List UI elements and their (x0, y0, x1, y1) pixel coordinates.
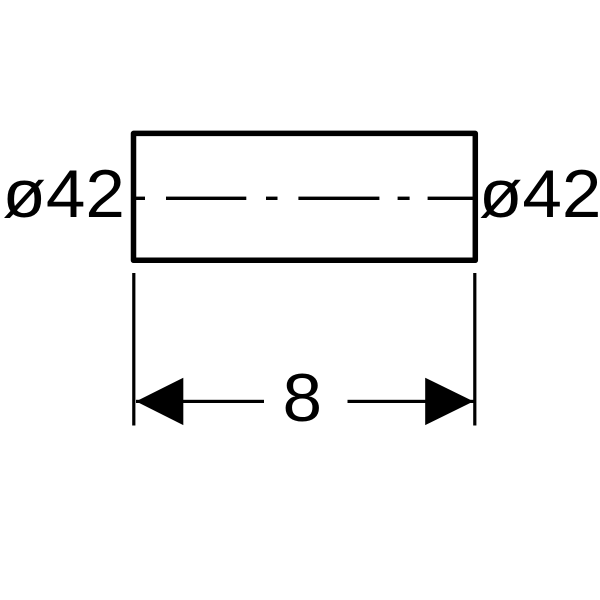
dimension line left segment (136, 400, 264, 403)
body outline (sleeve side view) (134, 133, 476, 260)
dimension line right segment (348, 400, 474, 403)
svg-text:ø42: ø42 (479, 155, 600, 231)
svg-text:ø42: ø42 (2, 155, 124, 231)
diameter label ø42 left (2, 155, 124, 231)
centerline (dash-dot axis) (133, 197, 476, 200)
extension line right (473, 273, 476, 426)
arrowhead right (425, 378, 473, 425)
dimension text 8 (282, 360, 322, 436)
diameter label ø42 right (479, 155, 600, 231)
arrowhead left (136, 378, 183, 425)
extension line left (132, 273, 135, 426)
svg-text:8: 8 (282, 360, 322, 436)
